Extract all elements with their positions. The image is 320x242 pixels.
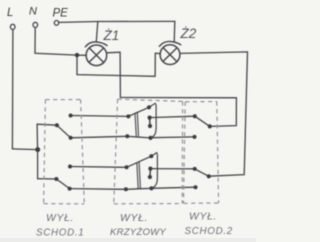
wire S1a upper contact to cross switch xyxy=(71,115,129,118)
cross switch upper linkage xyxy=(135,112,139,137)
terminal PE xyxy=(54,21,58,26)
wire N down xyxy=(35,28,77,55)
wire riser down to switch S1b xyxy=(38,150,57,179)
S1a lower contact dot xyxy=(69,136,73,140)
cross lower Rtop dot xyxy=(149,154,153,158)
cross lower Rbot dot xyxy=(149,186,153,190)
cross lower L1 dot xyxy=(125,165,129,169)
S1b lower contact dot xyxy=(68,187,72,191)
wire L down left side xyxy=(11,30,14,149)
S1b upper contact dot xyxy=(68,165,72,169)
cross switch lower bracket xyxy=(151,153,157,189)
svg-text:KRZYŻOWY: KRZYŻOWY xyxy=(110,227,166,238)
junction and contact dots xyxy=(35,53,212,191)
switch S2b arm xyxy=(195,169,209,176)
S2a common dot xyxy=(208,124,212,128)
cross upper L1 dot xyxy=(126,114,130,118)
wire N branch to lamp Z2 xyxy=(77,53,161,76)
cross switch lower arm 1 xyxy=(127,156,152,167)
svg-text:N: N xyxy=(29,6,37,18)
wire PE drop to lamp Z1 frame xyxy=(96,22,98,43)
node N junction xyxy=(75,53,79,57)
svg-text:Ż2: Ż2 xyxy=(180,26,197,41)
wire riser up to switch S1a xyxy=(37,124,57,149)
S2b common dot xyxy=(207,174,211,178)
svg-text:L: L xyxy=(7,7,13,19)
S1a common dot xyxy=(55,123,59,127)
svg-text:WYŁ.: WYŁ. xyxy=(46,212,74,224)
cross upper L2 dot xyxy=(125,134,129,138)
wire PE drop to lamp Z2 frame xyxy=(173,21,176,42)
wire cross upper Rbot to S2a lower contact xyxy=(151,136,195,139)
cross switch upper arm 1 xyxy=(128,107,149,116)
dashed enclosure box 1 (wyl. schod.1) xyxy=(44,100,85,204)
dashed enclosure box 2 (wyl. krzyzowy) xyxy=(114,99,183,204)
svg-text:WYŁ.: WYŁ. xyxy=(189,211,217,223)
wire S1a lower contact to cross switch xyxy=(71,136,128,138)
terminal N xyxy=(33,22,38,27)
svg-text:SCHOD.2: SCHOD.2 xyxy=(185,226,233,237)
cross switch lower arm 2 xyxy=(126,188,151,189)
S1b common dot xyxy=(54,177,58,181)
cross upper Rbot dot xyxy=(148,136,152,140)
S2b upper contact dot xyxy=(193,167,197,171)
wire L to junction xyxy=(12,148,37,151)
wire lamp Z2 right to switch S2b common xyxy=(180,52,248,176)
svg-text:SCHOD.1: SCHOD.1 xyxy=(36,228,84,239)
wire N junction to lamp Z1 xyxy=(77,54,86,56)
wire S1b upper contact to cross switch xyxy=(70,166,127,169)
S1a upper contact dot xyxy=(69,114,73,118)
wire S1b lower contact to cross switch xyxy=(70,188,126,191)
svg-text:PE: PE xyxy=(53,8,69,20)
cross switch lower linkage xyxy=(137,162,141,189)
wire PE horizontal xyxy=(59,21,175,22)
lamp Z2 frame arc xyxy=(159,41,181,46)
wire cross lower Rbot to S2b lower contact xyxy=(151,187,195,188)
cross lower L2 dot xyxy=(124,187,128,191)
cross upper M2 dot xyxy=(148,124,152,128)
dashed enclosure box 3 (wyl. schod.2) xyxy=(184,102,219,204)
paper background xyxy=(0,0,256,242)
S2b lower contact dot xyxy=(194,185,198,189)
node L/S1 junction xyxy=(35,147,40,152)
svg-text:Ż1: Ż1 xyxy=(103,28,120,43)
switch S1b arm xyxy=(56,179,69,189)
S2a upper contact dot xyxy=(193,114,197,118)
wire cross upper M1 to S2a upper contact xyxy=(150,116,195,117)
cross upper M1 dot xyxy=(148,116,152,120)
cross switch lower M1-M2 link xyxy=(149,169,152,177)
switch S2a arm xyxy=(195,116,210,126)
switch S1a arm xyxy=(57,125,71,138)
cross switch upper bracket xyxy=(149,103,156,138)
cross switch upper arm 2 xyxy=(127,136,150,138)
lamp Z1 frame arc xyxy=(85,42,107,47)
svg-text:WYŁ.: WYŁ. xyxy=(120,212,148,224)
cross upper Rtop dot xyxy=(147,105,151,109)
cross switch upper M1-M2 link xyxy=(149,118,151,126)
wire cross lower M1 to S2b upper contact xyxy=(150,168,194,170)
cross lower M1 dot xyxy=(148,167,152,171)
lamp Z1 xyxy=(86,45,107,66)
cross lower M2 dot xyxy=(148,175,152,179)
S2a lower contact dot xyxy=(193,135,197,139)
wire lamp Z1 right to switch S2a common xyxy=(107,52,237,126)
lamp Z2 xyxy=(160,45,180,65)
terminal L xyxy=(10,24,15,29)
